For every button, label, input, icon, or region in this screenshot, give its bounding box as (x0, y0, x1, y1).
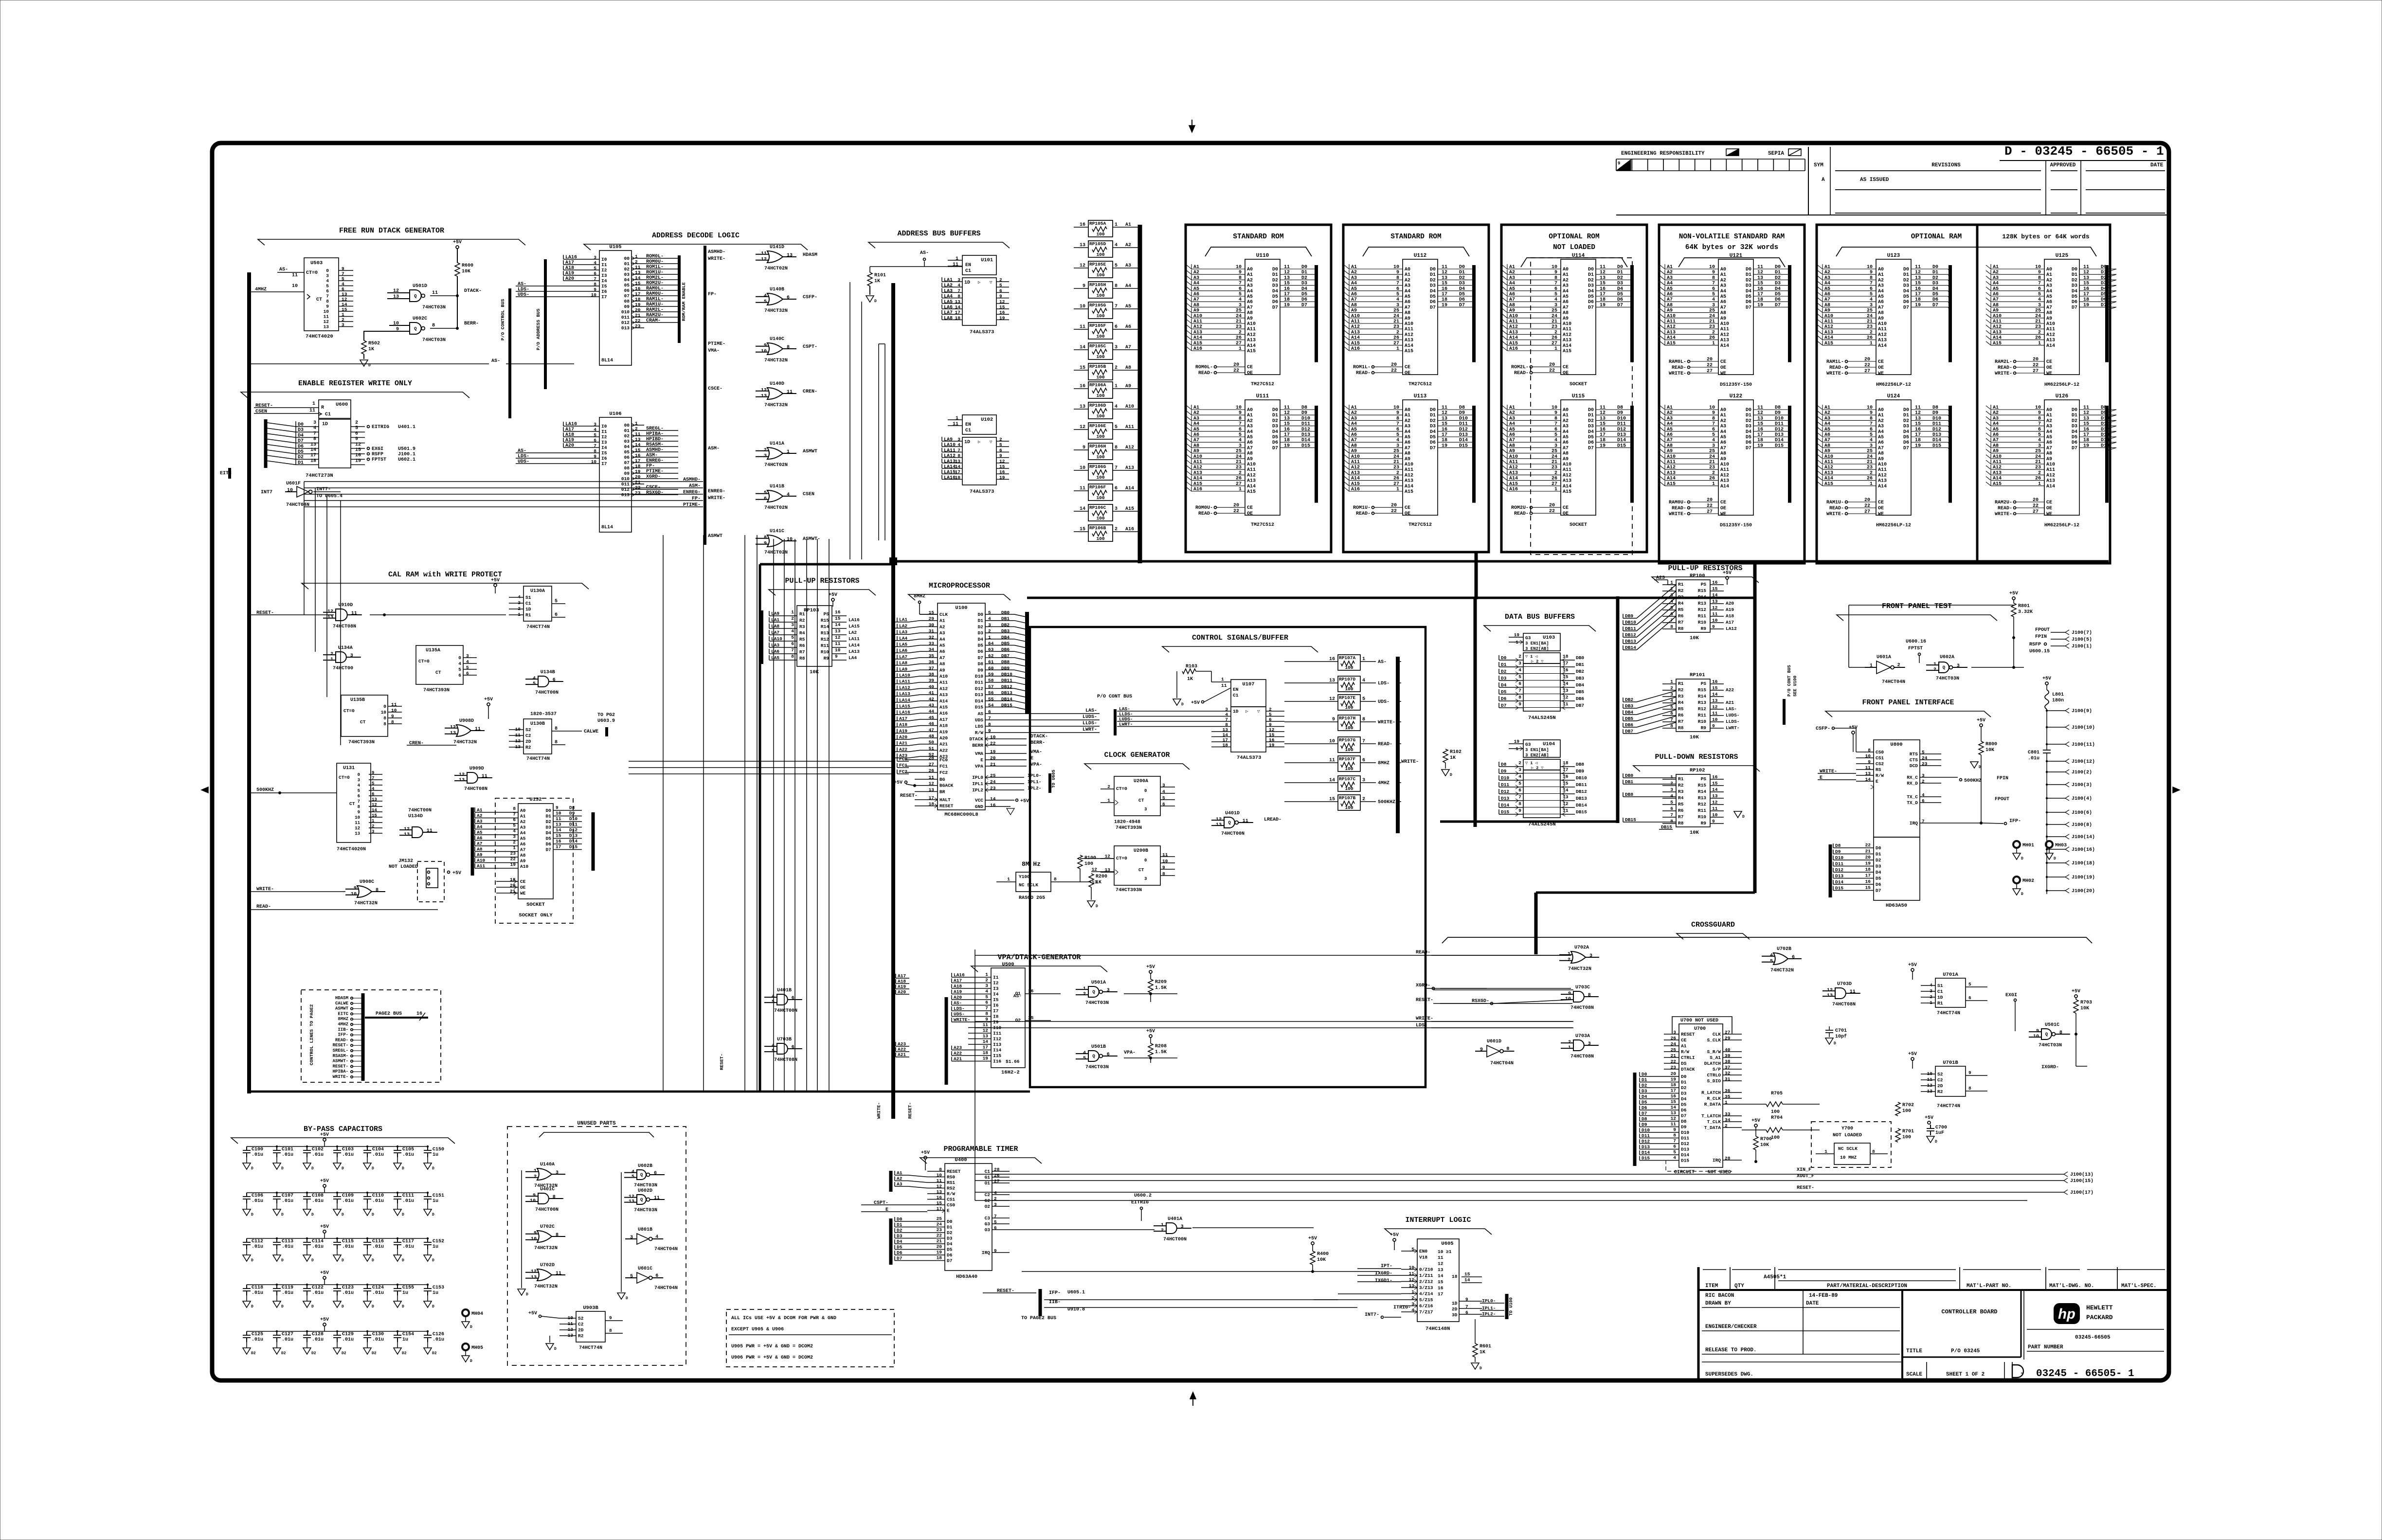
svg-text:9: 9 (1870, 270, 1873, 275)
svg-text:A12: A12 (1247, 332, 1256, 338)
svg-text:9: 9 (1518, 808, 1521, 813)
svg-text:D: D (874, 299, 877, 304)
svg-text:011: 011 (621, 482, 630, 487)
svg-text:U126: U126 (2056, 394, 2068, 399)
svg-text:READ-: READ- (1514, 371, 1529, 376)
svg-text:D6: D6 (546, 842, 552, 847)
svg-text:15: 15 (1915, 422, 1921, 427)
svg-text:U602C: U602C (413, 316, 427, 322)
svg-text:1: 1 (1396, 346, 1399, 352)
svg-text:7: 7 (1396, 281, 1399, 287)
svg-text:19: 19 (1915, 303, 1921, 308)
svg-text:11: 11 (787, 390, 793, 395)
svg-text:+5V: +5V (1146, 965, 1155, 970)
svg-text:D12: D12 (975, 686, 983, 691)
svg-text:A13: A13 (1878, 479, 1887, 484)
svg-text:9: 9 (999, 294, 1002, 299)
svg-text:ROM0L-: ROM0L- (1195, 365, 1213, 370)
svg-text:26: 26 (1236, 336, 1242, 341)
svg-text:D: D (1935, 1140, 1937, 1144)
svg-text:D1: D1 (1903, 413, 1909, 418)
svg-text:LA9: LA9 (944, 437, 953, 443)
svg-text:READ-: READ- (1829, 365, 1844, 371)
svg-text:OE: OE (1878, 506, 1884, 511)
svg-text:D4: D4 (1588, 289, 1594, 294)
svg-text:R200: R200 (1096, 874, 1107, 879)
svg-text:27: 27 (2033, 369, 2039, 374)
svg-text:D4: D4 (1588, 430, 1594, 435)
svg-text:IFP-: IFP- (2009, 819, 2021, 824)
svg-text:D0: D0 (1903, 408, 1909, 413)
svg-text:100: 100 (1345, 725, 1353, 731)
svg-text:A12: A12 (1563, 332, 1571, 338)
svg-text:D14: D14 (1301, 438, 1310, 443)
svg-text:8: 8 (1518, 801, 1521, 806)
svg-text:011: 011 (621, 315, 630, 320)
svg-text:A14: A14 (1878, 484, 1887, 489)
svg-text:15: 15 (2083, 281, 2089, 287)
svg-text:A11: A11 (2046, 467, 2055, 473)
svg-text:4: 4 (1518, 667, 1521, 673)
svg-text:D9: D9 (1459, 411, 1465, 416)
svg-text:U135B: U135B (350, 698, 365, 703)
svg-text:74HCT08N: 74HCT08N (1832, 1002, 1856, 1007)
svg-text:15: 15 (556, 833, 561, 839)
svg-text:SOCKET ONLY: SOCKET ONLY (519, 913, 553, 918)
svg-text:1820-3537: 1820-3537 (530, 712, 557, 717)
svg-text:U112: U112 (1414, 253, 1426, 259)
svg-text:16: 16 (1442, 427, 1447, 432)
svg-text:D0: D0 (546, 808, 552, 813)
svg-text:A5: A5 (1878, 435, 1884, 440)
svg-text:LLDS-: LLDS- (1726, 719, 1740, 724)
svg-text:R4: R4 (1678, 795, 1684, 801)
svg-text:D3: D3 (2072, 424, 2077, 430)
svg-text:D12: D12 (569, 827, 577, 833)
svg-text:D8: D8 (569, 805, 575, 810)
svg-text:U601D: U601D (1487, 1039, 1501, 1044)
svg-text:D3: D3 (546, 825, 552, 830)
svg-text:A4: A4 (1878, 430, 1884, 435)
svg-text:R704: R704 (1771, 1115, 1783, 1121)
svg-text:R14: R14 (1698, 594, 1706, 600)
svg-text:7: 7 (1518, 688, 1521, 693)
svg-text:5: 5 (326, 284, 329, 289)
svg-text:24: 24 (1867, 454, 1873, 460)
svg-text:I9: I9 (993, 1020, 999, 1025)
svg-text:5: 5 (594, 432, 596, 438)
svg-text:17: 17 (955, 469, 961, 475)
svg-text:9: 9 (1396, 411, 1399, 416)
svg-text:14: 14 (955, 304, 961, 310)
svg-text:A1: A1 (1405, 272, 1410, 278)
svg-text:OE: OE (1720, 506, 1726, 511)
svg-text:CT: CT (316, 297, 322, 303)
svg-text:RP101: RP101 (1690, 672, 1705, 678)
svg-text:U134B: U134B (541, 670, 555, 675)
svg-text:OPTIONAL ROM: OPTIONAL ROM (1549, 233, 1599, 241)
svg-text:LWRT-: LWRT- (1119, 722, 1133, 727)
svg-text:R2: R2 (1678, 783, 1684, 788)
svg-text:74HCT273N: 74HCT273N (306, 473, 333, 479)
svg-text:A4: A4 (1720, 430, 1726, 435)
svg-text:RP103: RP103 (804, 608, 819, 613)
svg-text:P/O CONT BUS: P/O CONT BUS (1097, 694, 1132, 699)
svg-text:15: 15 (1284, 281, 1290, 287)
svg-text:11: 11 (1563, 701, 1569, 707)
svg-text:07: 07 (624, 293, 630, 299)
svg-text:R7: R7 (799, 649, 805, 655)
svg-text:R_LATCH: R_LATCH (1701, 1090, 1721, 1095)
svg-text:HD63A50: HD63A50 (1886, 903, 1907, 909)
svg-text:D6: D6 (1588, 440, 1594, 446)
svg-text:D10: D10 (1301, 416, 1310, 421)
svg-text:U115: U115 (1572, 394, 1585, 399)
svg-text:74HCT74N: 74HCT74N (1937, 1104, 1960, 1109)
svg-text:A6: A6 (1878, 440, 1884, 446)
svg-text:FPOUT: FPOUT (1995, 797, 2009, 802)
svg-text:13: 13 (1600, 275, 1606, 281)
svg-text:D0: D0 (1876, 845, 1881, 851)
svg-text:U601F: U601F (286, 481, 301, 486)
svg-text:A0: A0 (1878, 408, 1884, 413)
svg-text:D4: D4 (1272, 430, 1278, 435)
svg-text:J100(1): J100(1) (2072, 644, 2092, 649)
svg-text:22: 22 (1864, 363, 1870, 368)
svg-text:19: 19 (1600, 303, 1606, 308)
svg-text:0: 0 (358, 772, 360, 777)
svg-text:D2: D2 (978, 624, 984, 629)
svg-text:2: 2 (513, 840, 516, 845)
svg-text:A1: A1 (1878, 272, 1884, 278)
svg-text:12: 12 (355, 826, 360, 831)
svg-text:READ-: READ- (1514, 511, 1529, 517)
svg-text:012: 012 (621, 320, 630, 325)
svg-text:D9: D9 (569, 811, 575, 816)
svg-text:RAM2U-: RAM2U- (1995, 500, 2012, 505)
svg-text:R6: R6 (1678, 808, 1684, 813)
svg-text:13: 13 (1671, 1110, 1677, 1116)
svg-text:10K: 10K (462, 269, 470, 274)
svg-text:4: 4 (513, 828, 516, 834)
svg-text:1820-4948: 1820-4948 (1114, 820, 1140, 825)
svg-text:LA13: LA13 (944, 459, 956, 465)
svg-text:100: 100 (1096, 536, 1104, 541)
svg-text:2: 2 (985, 978, 988, 983)
svg-text:2: 2 (1518, 760, 1521, 766)
svg-text:R5: R5 (1678, 706, 1684, 712)
svg-text:5: 5 (1239, 432, 1242, 438)
svg-text:A8: A8 (520, 853, 526, 858)
svg-text:A11: A11 (1720, 327, 1729, 332)
svg-text:I4: I4 (601, 278, 607, 284)
svg-text:18: 18 (2083, 438, 2089, 443)
svg-text:A14: A14 (939, 698, 948, 704)
svg-text:A13: A13 (1563, 338, 1571, 343)
svg-text:TO PG2: TO PG2 (597, 713, 615, 718)
svg-text:TM27C512: TM27C512 (1251, 382, 1274, 387)
svg-text:5: 5 (1712, 432, 1715, 438)
svg-text:26: 26 (1236, 476, 1242, 482)
svg-text:A14: A14 (1247, 484, 1256, 489)
svg-text:A1: A1 (520, 814, 526, 819)
svg-text:Y100: Y100 (1019, 874, 1030, 879)
svg-text:D8: D8 (978, 662, 984, 667)
svg-text:6: 6 (1968, 995, 1971, 1001)
svg-text:13: 13 (835, 628, 841, 634)
svg-text:CTS: CTS (1910, 757, 1918, 763)
svg-text:OE: OE (1563, 371, 1569, 376)
svg-text:D2: D2 (1903, 278, 1909, 283)
svg-text:D3: D3 (1681, 1091, 1687, 1096)
svg-text:J100(20): J100(20) (2072, 888, 2095, 894)
svg-text:5: 5 (791, 635, 794, 640)
svg-text:DTACK-: DTACK- (1030, 734, 1048, 739)
svg-text:A10: A10 (1405, 462, 1413, 467)
svg-text:D14: D14 (1775, 438, 1784, 443)
svg-text:74HCT08N: 74HCT08N (774, 1057, 797, 1063)
svg-text:1: 1 (1239, 487, 1242, 492)
svg-text:U800: U800 (1890, 742, 1902, 748)
svg-text:A2: A2 (1405, 278, 1410, 283)
svg-text:D5: D5 (1588, 294, 1594, 300)
svg-text:LA12: LA12 (944, 454, 956, 459)
svg-text:FPOUT: FPOUT (2035, 627, 2050, 633)
svg-text:OE: OE (1247, 511, 1253, 517)
svg-text:2D: 2D (1937, 1083, 1943, 1089)
svg-text:A2: A2 (1878, 418, 1884, 424)
svg-text:D7: D7 (2072, 446, 2077, 451)
svg-text:74HCT32N: 74HCT32N (1770, 968, 1794, 973)
svg-text:180n: 180n (2052, 698, 2064, 703)
svg-text:3: 3 (1396, 303, 1399, 308)
svg-text:A10: A10 (520, 864, 528, 869)
svg-text:6: 6 (594, 438, 596, 443)
svg-text:R15: R15 (1698, 783, 1706, 788)
svg-text:LWRT-: LWRT- (1726, 725, 1740, 731)
svg-text:CE: CE (1563, 505, 1569, 511)
svg-text:RP106G: RP106G (1089, 464, 1106, 469)
svg-text:18: 18 (1915, 438, 1921, 443)
svg-text:I13: I13 (993, 1042, 1001, 1047)
svg-text:CSFP-: CSFP- (1816, 726, 1830, 732)
svg-text:LA15: LA15 (848, 624, 860, 629)
svg-text:Q: Q (1092, 1054, 1095, 1059)
svg-text:19: 19 (2083, 443, 2089, 448)
svg-text:A0: A0 (1247, 408, 1253, 413)
svg-text:27: 27 (1236, 341, 1242, 346)
svg-text:74HCT393N: 74HCT393N (423, 688, 450, 693)
svg-text:U500: U500 (1002, 962, 1014, 967)
svg-text:R6: R6 (1678, 613, 1684, 619)
svg-text:PS: PS (824, 611, 830, 617)
svg-text:U141B: U141B (770, 484, 784, 489)
svg-text:VCC: VCC (975, 798, 983, 803)
svg-text:13: 13 (955, 459, 961, 464)
svg-text:S_A1: S_A1 (1710, 1055, 1721, 1060)
svg-text:D4: D4 (546, 830, 552, 836)
svg-text:22: 22 (1707, 363, 1713, 368)
svg-text:15: 15 (1757, 422, 1763, 427)
svg-text:A6: A6 (1720, 300, 1726, 305)
svg-text:SYM: SYM (1814, 162, 1823, 168)
svg-text:2: 2 (988, 628, 991, 634)
svg-text:19: 19 (1284, 443, 1290, 448)
svg-text:D6: D6 (1876, 882, 1881, 887)
svg-text:VPA/DTACK-GENERATOR: VPA/DTACK-GENERATOR (997, 953, 1081, 962)
svg-text:A13: A13 (939, 692, 948, 698)
svg-text:SOCKET: SOCKET (1570, 522, 1587, 528)
svg-text:U140B: U140B (770, 287, 784, 292)
svg-text:D10: D10 (1932, 416, 1941, 421)
svg-text:RESET-: RESET- (1416, 998, 1433, 1003)
svg-text:100: 100 (1096, 354, 1104, 359)
svg-text:10K: 10K (1690, 734, 1699, 740)
svg-text:19: 19 (999, 475, 1005, 480)
svg-text:D: D (2021, 857, 2023, 861)
svg-text:6: 6 (2038, 287, 2041, 292)
svg-text:05: 05 (624, 283, 630, 288)
svg-text:LA12: LA12 (1726, 626, 1737, 631)
svg-text:A12: A12 (1405, 332, 1413, 338)
svg-text:9: 9 (1518, 701, 1521, 707)
svg-text:3: 3 (791, 622, 794, 627)
svg-text:61: 61 (988, 660, 994, 665)
svg-text:16: 16 (1865, 879, 1871, 884)
svg-text:23: 23 (1552, 324, 1557, 330)
svg-text:A14: A14 (1405, 484, 1413, 489)
svg-text:R600: R600 (462, 263, 473, 269)
svg-text:3: 3 (358, 778, 360, 783)
svg-text:11: 11 (1243, 819, 1248, 824)
svg-text:U909D: U909D (469, 766, 484, 771)
svg-text:S/P: S/P (1713, 1067, 1721, 1072)
svg-text:7: 7 (326, 294, 329, 299)
svg-text:9: 9 (2038, 411, 2041, 416)
svg-text:A8: A8 (2046, 451, 2052, 457)
svg-text:U121: U121 (1730, 253, 1743, 259)
svg-text:74ALS373: 74ALS373 (970, 489, 994, 495)
svg-text:18: 18 (1600, 438, 1606, 443)
svg-text:U908C: U908C (360, 879, 374, 885)
svg-text:CE: CE (1720, 359, 1726, 365)
svg-text:74HCT393N: 74HCT393N (348, 740, 375, 745)
svg-text:5: 5 (988, 610, 991, 615)
svg-text:BGACK: BGACK (939, 783, 954, 788)
svg-text:U100: U100 (955, 605, 967, 611)
svg-text:25: 25 (2035, 308, 2041, 314)
svg-text:5: 5 (1396, 292, 1399, 297)
svg-text:U134D: U134D (408, 814, 423, 819)
svg-text:A10: A10 (939, 674, 948, 679)
svg-text:15: 15 (1442, 281, 1447, 287)
svg-text:1: 1 (1870, 341, 1873, 346)
svg-text:EXGI: EXGI (2005, 993, 2017, 998)
svg-text:21: 21 (1867, 460, 1873, 465)
svg-text:16H2-2: 16H2-2 (1001, 1070, 1020, 1075)
svg-text:+5V: +5V (1849, 725, 1858, 731)
svg-text:D4: D4 (1903, 430, 1909, 435)
svg-text:24: 24 (1236, 314, 1242, 319)
svg-text:5: 5 (1554, 432, 1557, 438)
svg-text:D: D (1096, 904, 1098, 909)
svg-text:A10: A10 (1878, 322, 1887, 327)
svg-text:D14: D14 (975, 698, 983, 704)
svg-text:15: 15 (2083, 422, 2089, 427)
svg-text:2: 2 (999, 277, 1002, 283)
svg-text:74HCT32N: 74HCT32N (764, 308, 788, 314)
svg-text:100: 100 (1771, 1110, 1780, 1115)
svg-text:100: 100 (1345, 665, 1353, 670)
svg-text:57: 57 (988, 684, 994, 689)
svg-text:WE: WE (1878, 371, 1884, 376)
svg-text:74ALS373: 74ALS373 (970, 329, 994, 335)
svg-text:D4: D4 (1903, 289, 1909, 294)
svg-text:2: 2 (1712, 470, 1715, 476)
svg-text:U106: U106 (609, 411, 621, 417)
svg-text:A1: A1 (2046, 413, 2052, 418)
svg-text:NOT LOADED: NOT LOADED (389, 864, 418, 870)
svg-text:NC SCLK: NC SCLK (1838, 1146, 1858, 1151)
svg-text:CE: CE (1878, 359, 1884, 365)
svg-text:I8: I8 (993, 1014, 999, 1020)
svg-text:23: 23 (1867, 324, 1873, 330)
svg-text:R3: R3 (1678, 789, 1684, 794)
svg-text:D11: D11 (1775, 422, 1784, 427)
svg-text:13: 13 (1284, 275, 1290, 281)
svg-text:LA15: LA15 (944, 470, 956, 475)
svg-text:8: 8 (1396, 416, 1399, 421)
svg-text:AS-: AS- (1013, 993, 1022, 999)
svg-text:TM27C512: TM27C512 (1408, 382, 1432, 387)
svg-text:A8: A8 (939, 662, 945, 667)
svg-text:DB6: DB6 (1001, 647, 1010, 652)
svg-text:D4: D4 (1681, 1096, 1687, 1102)
svg-text:A11: A11 (1247, 467, 1256, 473)
svg-text:26: 26 (1552, 476, 1557, 482)
svg-text:27: 27 (1864, 509, 1870, 515)
svg-text:04: 04 (624, 444, 630, 449)
svg-text:D3: D3 (978, 630, 984, 636)
svg-text:R15: R15 (1698, 687, 1706, 693)
svg-text:I1: I1 (601, 262, 607, 268)
svg-text:500KHZ: 500KHZ (256, 788, 274, 793)
svg-text:ROM2L-: ROM2L- (1511, 365, 1529, 370)
svg-text:I5: I5 (601, 284, 607, 289)
svg-text:D5: D5 (546, 836, 552, 842)
svg-text:19: 19 (999, 315, 1005, 321)
svg-text:19: 19 (355, 458, 361, 464)
svg-text:2: 2 (1396, 330, 1399, 335)
svg-text:6: 6 (1792, 955, 1795, 960)
svg-text:R705: R705 (1771, 1091, 1783, 1096)
svg-text:R/W: R/W (975, 730, 983, 735)
svg-text:17: 17 (1671, 1088, 1677, 1093)
svg-text:D5: D5 (1301, 292, 1307, 297)
svg-text:16: 16 (1915, 427, 1921, 432)
svg-text:4: 4 (787, 492, 790, 498)
svg-text:A0: A0 (1720, 408, 1726, 413)
svg-text:8: 8 (383, 721, 386, 727)
svg-text:A5: A5 (1563, 294, 1569, 300)
svg-text:OE: OE (1247, 371, 1253, 376)
svg-text:A14: A14 (2046, 343, 2055, 349)
svg-text:CE: CE (1681, 1038, 1687, 1043)
svg-text:27: 27 (1552, 482, 1557, 487)
svg-text:02: 02 (624, 267, 630, 272)
svg-text:LA6: LA6 (944, 305, 953, 310)
svg-text:74HCT32N: 74HCT32N (453, 740, 477, 745)
